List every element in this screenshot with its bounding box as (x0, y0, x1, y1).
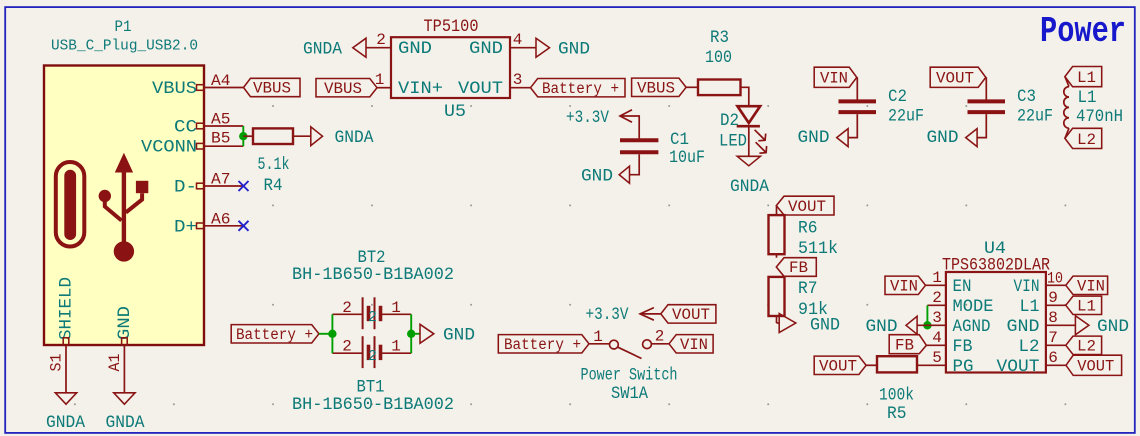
svg-text:VBUS: VBUS (637, 80, 675, 98)
svg-text:GND: GND (398, 39, 432, 59)
global label VBUS at U5 pin1 (316, 79, 377, 98)
svg-text:VIN: VIN (1077, 278, 1105, 296)
power symbol GNDA at R4 (311, 127, 374, 148)
svg-text:3: 3 (513, 71, 523, 89)
svg-text:GND: GND (581, 167, 613, 187)
ground GNDA under D2 (730, 156, 769, 197)
grid dots (74, 105, 1067, 405)
svg-text:FB: FB (895, 337, 914, 355)
wire MODE to AGND (926, 305, 928, 325)
svg-text:4: 4 (932, 329, 942, 347)
svg-text:VBUS: VBUS (152, 79, 197, 99)
global label VBUS at R3 (632, 78, 687, 97)
global label Battery + at switch (498, 335, 589, 354)
ground GNDA under S1 (46, 393, 85, 433)
LED D2 (737, 106, 767, 156)
svg-text:100: 100 (705, 48, 732, 68)
connector P1 body (44, 66, 204, 346)
global label L2 at U4 pin7 (1066, 336, 1102, 355)
power symbol GND at C3 (927, 128, 978, 148)
svg-text:2: 2 (376, 31, 386, 49)
switch SW1A (589, 327, 669, 358)
svg-text:VIN: VIN (890, 278, 918, 296)
P1 pin A1 (GND to GNDA) (106, 338, 127, 393)
resistor R7 (769, 276, 785, 323)
global label L1 (top of inductor) (1065, 67, 1102, 88)
power symbol GNDA at U5 pin2 (303, 38, 366, 59)
svg-text:GND: GND (443, 326, 475, 346)
svg-text:R7: R7 (798, 279, 818, 299)
P1 pin S1 (shield to GNDA) (48, 338, 69, 393)
resistor R4 (243, 128, 310, 144)
svg-text:VIN: VIN (680, 336, 708, 354)
U4 pin 4 FB (926, 329, 972, 357)
svg-text:LED: LED (719, 132, 747, 152)
svg-text:VOUT: VOUT (997, 357, 1040, 377)
power label +3.3V at C1 (566, 108, 639, 138)
svg-text:A6: A6 (211, 210, 231, 228)
svg-text:7: 7 (1048, 329, 1058, 347)
U4 pin 3 AGND (917, 309, 990, 337)
U5 pin 1 VIN+ (375, 71, 443, 99)
svg-text:9: 9 (1048, 289, 1058, 307)
U4 pin 10 VIN (1014, 270, 1066, 297)
svg-text:Power: Power (1040, 11, 1126, 52)
svg-text:+3.3V: +3.3V (586, 305, 629, 325)
svg-text:L1: L1 (1077, 69, 1096, 87)
svg-text:VOUT: VOUT (788, 198, 826, 216)
U4 pin 5 PG (917, 349, 973, 377)
svg-text:GNDA: GNDA (730, 177, 769, 197)
svg-text:BH-1B650-B1BA002: BH-1B650-B1BA002 (292, 395, 454, 415)
svg-text:SHIELD: SHIELD (57, 277, 77, 340)
resistor R5 (866, 356, 917, 372)
power symbol GND at U4 pin3 (866, 316, 918, 337)
svg-text:GNDA: GNDA (46, 413, 85, 433)
svg-text:2: 2 (342, 338, 352, 356)
capacitor C2 (839, 77, 877, 137)
svg-text:VBUS: VBUS (324, 80, 362, 98)
global label VIN at U4 pin10 (1066, 276, 1108, 295)
svg-text:FB: FB (953, 337, 973, 357)
svg-text:8: 8 (1048, 309, 1058, 327)
svg-text:2: 2 (342, 299, 352, 317)
svg-text:10uF: 10uF (669, 148, 705, 168)
global label Battery + at U5 pin3 (531, 79, 626, 98)
svg-text:TPS63802DLAR: TPS63802DLAR (942, 256, 1050, 276)
svg-text:GND: GND (558, 40, 590, 60)
svg-text:+3.3V: +3.3V (566, 108, 609, 128)
junction battery right (407, 330, 415, 338)
svg-text:FB: FB (789, 259, 808, 277)
power label +3.3V at switch (586, 305, 661, 325)
USB trident glyph (99, 153, 149, 262)
USB-C receptacle glyph (56, 162, 85, 247)
svg-text:A1: A1 (106, 354, 124, 372)
svg-text:VOUT: VOUT (1077, 358, 1114, 376)
P1 pin VBUS A4 (152, 72, 244, 99)
svg-text:GNDA: GNDA (106, 413, 145, 433)
svg-text:22uF: 22uF (1017, 107, 1053, 127)
global label VIN at switch (669, 335, 713, 354)
U5 pin 4 GND (469, 31, 536, 59)
junction at U4 pin3 (923, 321, 931, 329)
svg-text:SW1A: SW1A (611, 384, 648, 404)
svg-text:GNDA: GNDA (335, 128, 374, 148)
svg-text:L2: L2 (1077, 131, 1096, 149)
global label VBUS (244, 78, 301, 97)
U5 pin 2 GND (366, 31, 432, 59)
svg-text:VIN+: VIN+ (398, 79, 443, 99)
svg-text:GNDA: GNDA (303, 40, 342, 60)
global label L2 (bottom of inductor) (1065, 128, 1102, 149)
svg-text:TP5100: TP5100 (424, 17, 479, 37)
svg-text:C1: C1 (670, 130, 689, 150)
wire battery left rail (319, 314, 333, 353)
svg-text:VIN: VIN (820, 70, 848, 88)
svg-text:C2: C2 (888, 87, 907, 107)
svg-text:GND: GND (115, 306, 135, 340)
svg-text:BH-1B650-B1BA002: BH-1B650-B1BA002 (292, 265, 454, 285)
svg-text:2: 2 (655, 327, 665, 345)
svg-text:S1: S1 (48, 354, 66, 372)
power symbol GND at U4 pin8 (1075, 316, 1129, 337)
P1 pin D- A7 with no-connect (174, 171, 249, 198)
capacitor C3 (968, 77, 1006, 137)
global label Battery + at batteries (231, 325, 319, 344)
capacitor C1 (620, 140, 658, 174)
svg-text:1: 1 (593, 328, 603, 346)
svg-text:VOUT: VOUT (819, 358, 857, 376)
svg-text:1: 1 (391, 299, 401, 317)
U5 pin 3 VOUT (458, 71, 531, 99)
svg-text:VIN: VIN (1014, 277, 1040, 297)
svg-text:L1: L1 (1020, 297, 1040, 317)
svg-text:VBUS: VBUS (253, 80, 291, 98)
svg-text:C3: C3 (1017, 87, 1036, 107)
svg-text:U5: U5 (444, 102, 466, 122)
global label VOUT at C3 (930, 67, 986, 87)
svg-text:CC: CC (174, 118, 197, 138)
global label VOUT at R5 (814, 356, 866, 375)
svg-text:Battery +: Battery + (504, 336, 581, 354)
svg-text:B5: B5 (211, 130, 231, 148)
svg-text:L1: L1 (1077, 298, 1096, 316)
svg-text:R4: R4 (264, 176, 283, 196)
U4 pin 2 MODE (927, 289, 993, 317)
svg-text:D+: D+ (174, 217, 197, 237)
svg-text:A4: A4 (211, 72, 231, 90)
wire CC/VCONN join (242, 126, 244, 146)
global label FB at U4 pin4 (889, 335, 926, 355)
svg-text:5.1k: 5.1k (258, 155, 290, 175)
U4 pin 7 L2 (1019, 329, 1066, 357)
svg-text:L2: L2 (1019, 337, 1040, 357)
power symbol GND right of U5 pin4 (536, 38, 590, 59)
svg-text:4: 4 (513, 31, 523, 49)
power symbol GND at C2 (798, 128, 849, 148)
inductor L1 (1064, 77, 1069, 139)
global label VOUT at U4 pin6 (1066, 355, 1122, 375)
svg-text:GND: GND (810, 316, 840, 336)
svg-text:EN: EN (953, 277, 972, 297)
battery BT1 (332, 336, 411, 368)
P1 pin VCONN B5 (141, 130, 243, 158)
svg-text:6: 6 (1048, 349, 1058, 367)
power symbol GND at C1 (581, 166, 630, 186)
global label VIN at C2 (814, 67, 857, 87)
global label VIN at U4 pin1 (885, 276, 926, 295)
resistor R6 (769, 206, 785, 258)
U4 pin 1 EN (926, 269, 972, 297)
svg-text:R3: R3 (710, 28, 729, 48)
resistor R3 (686, 80, 749, 106)
IC U5 TP5100 body (391, 37, 510, 98)
IC U4 TPS63802DLAR body (946, 272, 1046, 373)
ground GNDA under A1 (106, 393, 145, 433)
svg-text:AGND: AGND (953, 317, 991, 337)
svg-text:A7: A7 (211, 171, 231, 189)
P1 pin D+ A6 with no-connect (174, 210, 249, 237)
svg-text:470nH: 470nH (1076, 107, 1123, 127)
svg-text:511k: 511k (798, 239, 838, 259)
svg-text:10: 10 (1047, 270, 1063, 288)
svg-text:PG: PG (953, 357, 974, 377)
junction battery left (328, 330, 336, 338)
battery BT2 (332, 297, 411, 329)
svg-text:5: 5 (932, 349, 942, 367)
svg-text:USB_C_Plug_USB2.0: USB_C_Plug_USB2.0 (51, 38, 198, 55)
svg-text:VOUT: VOUT (458, 79, 503, 99)
global label FB between R6 R7 (776, 258, 816, 278)
svg-text:2: 2 (368, 348, 377, 365)
svg-text:GND: GND (798, 128, 830, 148)
svg-text:VCONN: VCONN (141, 138, 197, 158)
global label VOUT at switch (661, 305, 716, 324)
svg-text:R6: R6 (798, 219, 818, 239)
svg-text:Battery +: Battery + (236, 326, 313, 344)
svg-text:VOUT: VOUT (936, 70, 974, 88)
svg-text:L1: L1 (1078, 88, 1097, 108)
svg-text:VOUT: VOUT (672, 306, 710, 324)
svg-text:GND: GND (927, 128, 959, 148)
svg-text:2: 2 (368, 309, 377, 326)
svg-text:A5: A5 (211, 111, 231, 129)
svg-text:Battery +: Battery + (542, 80, 619, 98)
U4 pin 6 VOUT (997, 349, 1066, 377)
U4 pin 9 L1 (1020, 289, 1066, 317)
svg-text:GND: GND (469, 39, 503, 59)
svg-text:1: 1 (932, 269, 942, 287)
power symbol GND right of batteries (420, 324, 475, 345)
global label VOUT at R6 (776, 196, 834, 216)
svg-text:1: 1 (391, 338, 401, 356)
global label L1 at U4 pin9 (1066, 296, 1102, 315)
svg-text:3: 3 (932, 309, 942, 327)
P1 pin CC A5 (174, 111, 243, 138)
power symbol GND under R7 (779, 314, 840, 336)
svg-text:Power Switch: Power Switch (581, 366, 678, 386)
svg-text:R5: R5 (887, 404, 907, 424)
svg-text:GND: GND (1007, 317, 1040, 337)
svg-text:MODE: MODE (953, 297, 994, 317)
wire battery right rail (411, 314, 420, 353)
svg-text:D-: D- (174, 178, 197, 198)
U4 pin 8 GND (1007, 309, 1076, 337)
svg-text:L2: L2 (1077, 338, 1096, 356)
svg-text:2: 2 (932, 289, 942, 307)
svg-text:100k: 100k (879, 386, 914, 406)
svg-text:D2: D2 (720, 111, 739, 131)
svg-text:P1: P1 (115, 18, 132, 36)
svg-text:22uF: 22uF (888, 107, 924, 127)
junction CC node (239, 132, 247, 140)
svg-text:GND: GND (1097, 317, 1129, 337)
